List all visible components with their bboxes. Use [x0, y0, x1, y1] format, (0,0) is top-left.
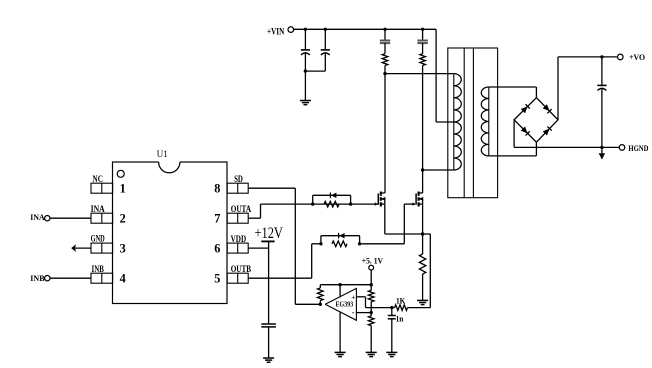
svg-text:-: - [352, 308, 355, 317]
svg-text:U1: U1 [157, 149, 168, 159]
svg-text:OUTA: OUTA [231, 205, 252, 215]
svg-text:+12V: +12V [254, 225, 283, 242]
svg-text:3: 3 [120, 241, 126, 255]
svg-text:OUTB: OUTB [231, 265, 252, 275]
svg-text:+5. 1V: +5. 1V [362, 257, 383, 266]
svg-text:VDD: VDD [231, 235, 247, 245]
svg-text:8: 8 [214, 181, 220, 195]
svg-text:INB: INB [30, 273, 44, 283]
svg-text:6: 6 [214, 241, 220, 255]
svg-text:NC: NC [93, 175, 103, 185]
svg-text:7: 7 [214, 211, 220, 225]
svg-text:INB: INB [92, 265, 105, 275]
svg-text:INA: INA [91, 205, 105, 215]
svg-text:SD: SD [234, 175, 243, 185]
svg-text:1n: 1n [396, 313, 404, 323]
svg-text:HGND: HGND [628, 143, 648, 153]
svg-text:1: 1 [120, 181, 126, 195]
svg-text:+: + [351, 293, 355, 301]
svg-text:4: 4 [120, 271, 126, 285]
svg-text:5: 5 [214, 271, 220, 285]
svg-text:2: 2 [120, 211, 126, 225]
svg-text:INA: INA [30, 212, 45, 222]
svg-text:+VO: +VO [629, 52, 645, 62]
svg-text:+VIN: +VIN [267, 27, 284, 37]
svg-text:GND: GND [91, 235, 105, 245]
